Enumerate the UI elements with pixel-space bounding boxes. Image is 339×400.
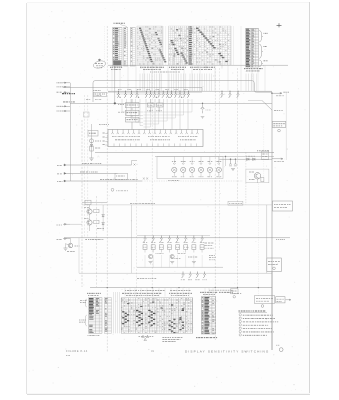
label: CR1 CR2 [246, 155, 255, 157]
resistor R205 [176, 245, 180, 250]
label: sub circuit values [156, 253, 164, 255]
wire: corner into +5V rail [262, 93, 272, 110]
diode CR10 [90, 144, 92, 146]
photo-transistor Q402 [181, 163, 186, 176]
label: Q207 [192, 241, 196, 243]
wire: data bus corner up [132, 161, 138, 166]
diode CR2 [253, 158, 255, 161]
wire: stepped connections right bundle [144, 99, 193, 127]
wire: chain vertical [91, 124, 93, 158]
resistor R202 [151, 245, 155, 250]
wire: vertical trunk x237.5 [237, 68, 239, 287]
label: lamp row reference [168, 180, 179, 182]
matrix closed-contact marks (diagonal group 5) [176, 29, 181, 36]
label under table A [88, 335, 100, 337]
junction x-marks on clock line end [143, 178, 148, 180]
label: Q402 [181, 161, 186, 163]
label: Q401 [172, 161, 176, 163]
resistor network R102 [126, 110, 140, 115]
U1 input pin symbols [111, 130, 198, 135]
wire: strobe bus line [64, 172, 118, 174]
wire: +5V rail [271, 110, 273, 350]
reference bubble 3 [273, 267, 276, 270]
legend item 6 text [243, 331, 274, 333]
wire: horizontal bus A [63, 86, 202, 88]
connector 1A-P1 pin table (left) [124, 28, 128, 67]
transistor Q117 [229, 91, 232, 98]
board outline 1A-A2 left edge (dashed) [81, 120, 83, 287]
title reference bubble [279, 348, 283, 352]
caption: pin table A [87, 292, 101, 294]
label: table A left note 2 [79, 319, 86, 321]
resistor R208 [200, 245, 204, 250]
node +5V junction [271, 92, 273, 94]
label: to display [274, 161, 284, 163]
label: Q406 [216, 161, 221, 163]
resistor R103 box [148, 103, 155, 107]
transistor Q1 [254, 173, 260, 179]
transistor Q212 (sub) [170, 255, 174, 259]
legend item 7 text [243, 334, 267, 336]
tick above title [276, 344, 279, 346]
resistor R206 [184, 245, 188, 250]
wire: vertical trunk x152 [151, 66, 153, 298]
keyboard switch matrix table [137, 26, 231, 65]
labels above scan bus [118, 89, 188, 91]
wire: +5V feed with arrow [272, 92, 282, 94]
legend item 3 reference bubble [239, 320, 241, 322]
label: note row under bus [86, 99, 90, 101]
brace: display signal group [259, 44, 263, 58]
wire: horizontal bus B lower pair [108, 91, 202, 93]
wire: driver row collector bus [137, 235, 210, 237]
legend item 7 reference bubble [239, 334, 241, 336]
caption: keyboard switches [140, 66, 164, 68]
label: Q203 [159, 241, 163, 243]
board outline divider (dashed) [96, 196, 98, 287]
label: near TB1 [276, 239, 285, 241]
matrix C dark cells (zigzag cluster 2) [136, 310, 143, 326]
matrix closed-contact marks (diagonal group 6) [181, 53, 188, 64]
wire: full-width lower rail [90, 287, 272, 289]
transistor Q110 [166, 91, 169, 98]
legend item 2 text [243, 318, 275, 320]
labels: serial input lines [57, 83, 64, 111]
legend item 3 text [243, 321, 278, 323]
resistor network R105 [126, 117, 140, 122]
wire: Q5 connections [70, 238, 72, 243]
transistor Q302 [189, 272, 192, 278]
capacitor C1 box [88, 131, 98, 137]
transistor Q201 [144, 236, 147, 242]
wire: regulator drop x245.9 [245, 152, 247, 169]
photo-transistor Q401 [172, 163, 177, 176]
label: Q302 [188, 279, 192, 281]
transistor Q114 [183, 91, 186, 98]
IC U1 keyboard scan driver [108, 130, 203, 147]
transistor Q207 [192, 236, 195, 242]
label: Q5 [75, 245, 80, 247]
wire: data bus line [64, 164, 132, 166]
caption: connector J1 table [110, 66, 122, 68]
transistor Q105 [145, 91, 148, 98]
figure caption small mark [66, 355, 70, 357]
wire: strobe into box [117, 172, 119, 174]
transistor Q301 [182, 272, 185, 278]
matrix C sparse top cells [127, 302, 173, 309]
bottom-left note block [162, 337, 182, 339]
label: table A left note [80, 300, 87, 302]
reference bubble 2 [278, 129, 281, 132]
label: Q404 [199, 161, 204, 163]
resistor R201 [143, 245, 147, 250]
wire: bus under connector tables [108, 64, 288, 66]
wire: vertical trunk x136.5 [136, 170, 138, 297]
connector 1A-P3 pin table (bottom B) [104, 298, 111, 334]
legend item 5 reference bubble [239, 327, 241, 329]
wire: row B feed [79, 272, 272, 274]
wire: bus B to right rail [201, 87, 203, 91]
legend item 1 text [243, 314, 273, 316]
photo-transistor Q405 [207, 163, 212, 176]
keyboard assembly outline 1A-A1 (rounded) [93, 81, 272, 102]
label: Q208 [200, 241, 204, 243]
transistor Q102 [124, 91, 127, 98]
label: Q301 [181, 279, 185, 281]
connector stub: sense line 2 [63, 238, 70, 240]
wire: lamp stems [174, 157, 219, 164]
connector 1A-J1 pin table [113, 28, 123, 67]
matrix C dark cells (column cluster) [169, 308, 185, 333]
wire: switch common line [64, 237, 290, 239]
wire: vertical feed to P2 [266, 205, 268, 273]
stamp: approval oval [93, 60, 107, 70]
wire: bus risers from tables [112, 65, 265, 91]
wire: clock bus line [64, 180, 142, 182]
connector stub: strobe [64, 172, 66, 174]
label: Q202 [151, 241, 155, 243]
delta note markers [142, 335, 149, 340]
caption: switch group 3 [190, 66, 215, 68]
capacitor C2 [229, 159, 232, 166]
diode CR3 to ground [201, 103, 205, 113]
caption: pin table D [200, 291, 217, 293]
wire: lower section bus [82, 204, 272, 206]
driver block enclosure left edge [131, 205, 133, 273]
transistor Q107 [153, 91, 156, 98]
diode CR1 [247, 158, 249, 161]
wire: vertical dotted x104 [103, 26, 105, 68]
wire: vertical dotted x263.8 [263, 124, 265, 180]
connector label 1A-J1 / 1A-P1 [114, 22, 125, 24]
matrix closed-contact marks (scatter) [147, 28, 221, 64]
junction dots on +12V line [230, 159, 231, 160]
transistor Q104 [136, 91, 139, 98]
transistor Q204 [168, 236, 171, 242]
caption: table footnotes [150, 71, 180, 73]
resistor R32 [94, 220, 99, 223]
label: CR3 [206, 109, 211, 111]
off-page connector: power return [276, 297, 285, 303]
diode CR5 [102, 215, 105, 217]
wire: base feed line under bus [116, 93, 190, 95]
wire: Q3-Q4 chain [89, 205, 91, 209]
label: R103 R104 values [147, 110, 153, 112]
lamp row enclosure box [157, 157, 223, 179]
brace: power group [259, 60, 263, 67]
label: clock bus [100, 179, 138, 181]
transistor Q109 [162, 91, 165, 98]
label: serial bus 2 [63, 101, 75, 103]
label: anode bus [257, 150, 269, 152]
connector 1A-J2 pin table (bottom A) [89, 298, 103, 334]
transistor Q103 [130, 91, 133, 98]
matrix closed-contact marks (diagonal group 2) [155, 32, 162, 45]
label: chain parts [95, 140, 101, 142]
transistor Q304 [203, 272, 206, 278]
label: display group [264, 46, 267, 48]
wire: vertical dotted x258 [257, 183, 259, 296]
matrix dark column (row labels) [189, 26, 193, 64]
resistor R104 box [157, 103, 164, 107]
transistor Q3 [87, 209, 92, 214]
wire: Q206 emitter [185, 249, 187, 252]
caption: table D note [232, 293, 241, 295]
transistor Q113 [179, 91, 182, 98]
transistor Q2 (chain) [90, 139, 94, 143]
wire: dashed riser pair [84, 95, 86, 237]
terminal block 1A-TB1 [273, 201, 293, 211]
keyboard block label box [94, 92, 107, 96]
junction cluster right of lamp box [225, 156, 226, 157]
sensitivity matrix table (bottom C) [121, 298, 193, 334]
photo-transistor Q404 [198, 163, 203, 176]
wire: horizontal bus B [108, 90, 272, 92]
photo-transistor Q403 [190, 163, 195, 176]
junction dots on lower rail [107, 287, 108, 288]
photo-transistor Q406 [216, 163, 221, 176]
junction on keyboard data line [114, 102, 116, 104]
label: +5V [284, 91, 289, 93]
legend source box [255, 296, 275, 304]
fuse F1 box [85, 200, 91, 204]
wire: vertical dotted x252 [251, 68, 253, 80]
small box on dashed riser [84, 112, 90, 117]
off-page connector: to display unit [272, 122, 286, 128]
transistor Q303 [196, 272, 199, 278]
matrix closed-contact marks (diagonal group 4) [171, 40, 180, 55]
wire: regulator output [257, 179, 259, 183]
transistor Q116 [221, 91, 224, 98]
ground: Q5 emitter [64, 248, 68, 250]
label: Q1 [249, 171, 254, 173]
brace: table A rows [85, 299, 87, 307]
wire: risers between B and C tables [114, 292, 120, 333]
resistor R203 [159, 245, 163, 250]
label: block note [93, 90, 101, 92]
wire: table risers to bus [141, 65, 252, 68]
transistor Q108 [158, 91, 161, 98]
wire: vertical trunk x215 [214, 68, 216, 340]
wire: lamp box top rail [155, 156, 274, 158]
wire: row A drops [145, 255, 202, 268]
voltage regulator Q1 (dashed enclosure) [246, 169, 269, 183]
note text under tables [139, 335, 154, 337]
matrix closed-contact marks (diagonal group 7) [196, 28, 228, 63]
label: lower bus [130, 203, 155, 205]
label box on lower bus [228, 201, 243, 205]
label: Q205 [175, 241, 179, 243]
wire: left vertical bus [69, 83, 71, 181]
label: Q206 [184, 241, 188, 243]
svg-text:FIGURE 8-14: FIGURE 8-14 [66, 349, 88, 353]
registration mark [277, 23, 282, 27]
label: Q201 [143, 241, 147, 243]
label: switch common [85, 239, 103, 241]
label: lower rail right [170, 290, 190, 292]
matrix faint cell text [137, 27, 229, 65]
legend item 5 text [243, 328, 272, 330]
legend item 6 reference bubble [239, 330, 241, 332]
ground: C2 C3 [231, 169, 235, 171]
transistor Q111 [170, 91, 173, 98]
wire: stepped connections to driver box [122, 99, 143, 126]
transistor Q115 [187, 91, 190, 98]
terminator box on strobe line [115, 173, 128, 180]
wire: emitter drops from Q row [146, 99, 188, 130]
drawing number [196, 337, 217, 339]
label: keyboard group [264, 32, 269, 34]
wire: Q201 emitter [144, 249, 146, 252]
label: Q403 [190, 161, 195, 163]
wire: right thin rail [285, 93, 287, 161]
label: power group [264, 60, 268, 62]
wire: diode column [102, 205, 104, 215]
transistor Q205 [176, 236, 179, 242]
label: Q204 [167, 241, 171, 243]
U1 left pin stubs [103, 133, 109, 146]
label: Q4 [84, 218, 88, 220]
capacitor C3 [234, 159, 237, 166]
U1 internal labels [112, 136, 140, 138]
transistor Q5 [68, 243, 73, 248]
diode CR6 [102, 223, 105, 225]
connector 1A-P1 pin table (right) [130, 28, 135, 67]
transistor Q206 [184, 236, 187, 242]
wire: Q204 emitter [168, 249, 170, 252]
wire: arrow to display unit [272, 158, 283, 160]
transistor Q106 [149, 91, 152, 98]
caption: matrix table right [169, 292, 192, 294]
resistor R31 [94, 209, 99, 212]
matrix C dark cells (zigzag cluster 1) [122, 311, 129, 324]
wire: left end vertical between rails [78, 238, 80, 273]
ground symbols under driver row [149, 262, 196, 264]
connector stubs: serial input lines [63, 82, 70, 112]
labels above row B [171, 257, 180, 259]
wire: riser from table T1 to data line [114, 66, 116, 103]
resistor R207 [192, 245, 196, 250]
wire: vertical trunk x219.5 [219, 68, 221, 250]
legend item 4 text [243, 324, 268, 326]
wire: driver row bottom rail [137, 266, 223, 268]
label: Q304 [202, 279, 206, 281]
wire: legend box drop [257, 295, 259, 298]
label: lower rail far right [209, 289, 233, 291]
label: Q3 [84, 207, 89, 209]
off-page box: contrast line [262, 151, 269, 159]
label: R101 value [118, 104, 124, 106]
wire: anode bus [95, 151, 274, 153]
transistor Q101 [117, 91, 120, 98]
wire: vertical trunk x107 [106, 26, 108, 352]
reference bubble on clock line [111, 188, 114, 191]
connector 1A-J4 pin table (bottom D) [201, 297, 216, 334]
transistor Q202 [152, 236, 155, 242]
transistor Q211 (sub) [149, 255, 153, 259]
connector 1A-J3 display pin table [246, 29, 259, 68]
matrix closed-contact marks (diagonal group 3) [159, 49, 167, 62]
label: assembly name [99, 124, 109, 126]
reference bubble below source box [261, 305, 264, 308]
resistor R204 [167, 245, 171, 250]
matrix C dark cells (zigzag cluster 3) [148, 310, 155, 326]
label: strobe bus [80, 171, 98, 173]
wire: Q202 emitter [152, 249, 154, 252]
reference bubble: note box [233, 296, 235, 298]
wire: Q205 emitter [177, 249, 179, 252]
label column right of driver row [205, 242, 214, 244]
connector stub: sense line 1 [63, 223, 70, 225]
wire: drop bundle under captions [140, 74, 256, 92]
legend item 2 reference bubble [239, 317, 241, 319]
transistor Q4 [87, 220, 92, 225]
ground: chain bottom [89, 158, 93, 160]
connector stub: clock [64, 180, 66, 182]
wire: R103-R104 feeds [150, 99, 152, 103]
label: serial bus (dark) [62, 93, 75, 95]
label: data bus [82, 163, 101, 165]
label under driver block [137, 278, 156, 280]
wire: P2 drop [271, 272, 273, 351]
wire: R101-R102 link [131, 108, 133, 110]
wire: +12V line [219, 158, 272, 160]
wire: stub into rail at 152 [272, 151, 274, 153]
label: R102 value [118, 111, 124, 113]
resistor network R101 [126, 103, 140, 108]
legend heading: HARDWARE LEGEND [239, 310, 266, 312]
junction x-mark on data line [134, 164, 136, 166]
transistor Q112 [174, 91, 177, 98]
label: Q303 [195, 279, 199, 281]
label: CR5 CR6 [97, 228, 104, 230]
stamp: asterisk mark [98, 59, 101, 62]
transistor Q118 [237, 91, 240, 98]
wire: arrow at power return [286, 299, 292, 301]
caption: switch group 2 [169, 66, 186, 68]
resistor R2 [261, 178, 264, 182]
svg-text:31: 31 [151, 349, 154, 353]
svg-text:DISPLAY SENSITIVITY SWITCHING: DISPLAY SENSITIVITY SWITCHING [185, 349, 269, 353]
wire: top line of lower section [82, 201, 107, 203]
brace: keyboard signal group [259, 31, 263, 42]
wire: Q207 emitter [193, 249, 195, 252]
connector 1A-P2 box [267, 258, 282, 272]
resistor R10 [90, 146, 93, 151]
wire: grid gap verticals [233, 26, 235, 65]
label: rail note [274, 110, 283, 112]
wire: clock bus dashed extension [142, 180, 243, 182]
